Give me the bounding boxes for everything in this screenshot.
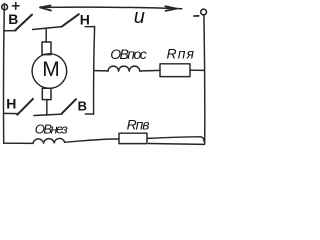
- inductor OVnez: [33, 138, 65, 143]
- wire bottom-left stub: [4, 112, 18, 114]
- svg-text:Н: Н: [80, 12, 90, 28]
- svg-text:Rпв: Rпв: [127, 116, 150, 132]
- brush top: [42, 42, 51, 55]
- wire left rail: [2, 10, 5, 143]
- wire bottom bus: [34, 114, 62, 115]
- wire series branch: [94, 70, 108, 72]
- terminal plus: [2, 4, 8, 10]
- terminal minus: [201, 9, 207, 15]
- wire Rpv to corner: [147, 137, 204, 142]
- current arrow: [40, 7, 182, 9]
- resistor Rpja: [160, 64, 190, 77]
- switch blade B top: [15, 15, 32, 31]
- wire bottom contact stub: [85, 113, 93, 115]
- wire bottom rail right: [149, 143, 205, 146]
- svg-text:Rпя: Rпя: [167, 46, 195, 62]
- wire coil to Rpv: [65, 139, 119, 142]
- svg-text:В: В: [78, 98, 87, 113]
- wire junction to brush: [45, 28, 47, 42]
- wire brush to bottom bus: [46, 100, 48, 116]
- svg-text:ОВнез: ОВнез: [35, 121, 68, 136]
- switch blade B bottom: [62, 99, 76, 113]
- svg-text:М: М: [42, 58, 60, 81]
- switch blade H bottom: [17, 99, 33, 115]
- minus sign: [194, 15, 199, 17]
- switch blade H top: [62, 14, 79, 26]
- brush bottom: [42, 88, 51, 99]
- svg-text:u: u: [134, 6, 145, 28]
- wire bottom rail left: [4, 142, 33, 144]
- wire top-left stub: [4, 30, 16, 32]
- resistor Rpv: [119, 133, 147, 143]
- wire resistor to right rail: [190, 69, 204, 71]
- wire right rail: [203, 15, 206, 144]
- svg-text:В: В: [8, 11, 18, 27]
- plus sign: [12, 3, 19, 10]
- wire coil to resistor: [140, 69, 160, 72]
- wire top bus: [33, 27, 63, 30]
- wire box right edge: [94, 27, 95, 114]
- svg-text:ОВпос: ОВпос: [110, 46, 147, 62]
- inductor OVpos: [108, 66, 140, 71]
- svg-text:Н: Н: [6, 95, 16, 111]
- motor circle M: [32, 54, 67, 89]
- wire top contact stub: [85, 26, 94, 28]
